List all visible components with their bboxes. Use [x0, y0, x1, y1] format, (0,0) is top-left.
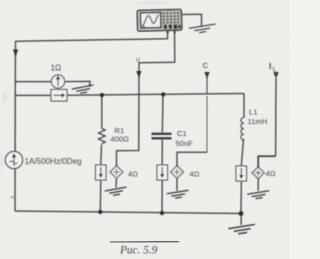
- wire: L branch vertical: [243, 94, 245, 118]
- AC current source 1A/500Hz: [5, 151, 22, 168]
- capacitor C1 plates: [152, 134, 172, 139]
- scope front panel buttons: [163, 12, 181, 29]
- ground (right of 1 Ohm circle): [72, 85, 95, 95]
- ground (scope, top right): [189, 24, 217, 34]
- wire: scope ground lead: [182, 14, 202, 26]
- svg-text:1Ω: 1Ω: [51, 64, 62, 73]
- wire: C diamond ground stub: [176, 178, 178, 191]
- scope screen sine trace: [142, 15, 159, 26]
- svg-text:L1: L1: [249, 108, 257, 117]
- arrow on scope-B wire: [136, 71, 141, 78]
- source transresistance sensor 1 Ohm (circle with arrow): [51, 75, 64, 88]
- arrow on node IL line: [273, 72, 278, 79]
- svg-text:1A/500Hz/0Deg: 1A/500Hz/0Deg: [25, 157, 82, 166]
- wire: scope channel B down-jog to R diamond output: [117, 32, 175, 167]
- ground (bottom right of bus): [228, 224, 256, 235]
- junction: R branch / top bus: [100, 93, 104, 97]
- scope terminals: [167, 30, 169, 33]
- oscilloscope XSC: [137, 9, 182, 34]
- svg-text:U: U: [136, 58, 140, 64]
- ground (L branch diamond): [247, 191, 270, 200]
- current sense box in R branch: [96, 165, 107, 180]
- dependent source diamond (R branch): [110, 166, 123, 178]
- wire: bottom-right ground stub: [240, 214, 242, 226]
- junction: C branch / top bus: [161, 92, 165, 96]
- wire: bottom bus: [15, 211, 241, 214]
- wire: 1-ohm sensor row (left lead, right lead to ground): [15, 81, 51, 83]
- current sense box on top bus: [51, 90, 67, 102]
- svg-text:50nF: 50nF: [176, 139, 194, 148]
- ground (R branch diamond): [105, 187, 128, 197]
- wire: R branch vertical: [101, 95, 103, 129]
- svg-text:C: C: [203, 61, 209, 70]
- svg-text:400Ω: 400Ω: [111, 135, 130, 144]
- wire: left main vertical (scope A / source / bus node): [14, 41, 17, 211]
- junction: L branch / bottom bus / ground: [239, 211, 244, 216]
- svg-text:I: I: [269, 61, 271, 71]
- svg-text:C1: C1: [177, 129, 187, 138]
- inductor L1 coil: [241, 117, 244, 140]
- wire: R diamond ground stub: [115, 179, 118, 188]
- current sense box in L branch: [236, 166, 247, 181]
- wire: C branch vertical: [161, 94, 164, 133]
- figure caption rule: [110, 241, 179, 244]
- wire: L diamond signal line up to node IL arrow: [258, 156, 275, 167]
- ground (C branch diamond): [167, 190, 190, 199]
- svg-text:Рис. 5.9: Рис. 5.9: [119, 245, 158, 257]
- wire: scope channel A horizontal to left wire: [16, 32, 168, 42]
- dependent source diamond (C branch): [171, 166, 184, 178]
- resistor R1 zigzag: [98, 129, 105, 144]
- svg-text:4Ω: 4Ω: [128, 170, 138, 179]
- wire: L diamond ground stub: [257, 179, 259, 192]
- svg-text:11mH: 11mH: [248, 117, 268, 126]
- arrow on node C line: [204, 72, 209, 79]
- svg-text:4Ω: 4Ω: [190, 170, 200, 179]
- wire: top bus: [15, 94, 51, 96]
- wire: C diamond signal line up to node C arrow: [177, 152, 207, 166]
- junction: C branch / bottom bus: [160, 211, 164, 215]
- current sense box in C branch: [157, 165, 168, 180]
- junction: R branch / bottom bus: [98, 210, 102, 214]
- arrow on left wire: [13, 50, 18, 57]
- svg-text:L: L: [273, 66, 277, 73]
- svg-text:4Ω: 4Ω: [266, 169, 276, 178]
- dependent source diamond (L branch): [252, 167, 264, 179]
